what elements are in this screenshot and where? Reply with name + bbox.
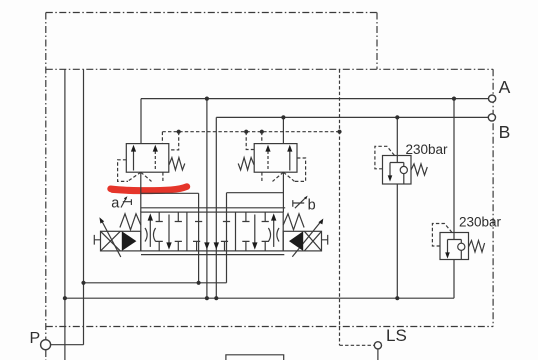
compensator R solid arrow head xyxy=(287,145,292,152)
relief valve 2 arrow head xyxy=(445,252,450,258)
solenoid b connector xyxy=(322,235,328,245)
main valve envelope top line xyxy=(141,207,285,209)
node B line / compensator R xyxy=(281,115,285,119)
solenoid b cross xyxy=(304,231,321,251)
solenoid a body xyxy=(101,231,141,251)
svg-text:B: B xyxy=(499,122,511,142)
node A line / relief valve 2 xyxy=(452,97,456,101)
enclosure boundary dash-dot right xyxy=(492,69,494,326)
compensator R spring xyxy=(238,158,254,170)
node T rail / T return xyxy=(63,296,67,300)
wire B drop through valve xyxy=(215,117,217,298)
relief valve 2 check ball xyxy=(458,243,465,250)
port P xyxy=(41,340,51,350)
compensator L drain fan xyxy=(128,172,163,181)
wire relief valve 1 outlet xyxy=(396,184,398,298)
wire relief valve 2 inlet xyxy=(453,99,455,233)
enclosure boundary dash-dot middle horizontal xyxy=(46,68,493,70)
node B line / relief valve 1 xyxy=(395,115,399,119)
wire compensator L top to A line xyxy=(140,99,142,144)
relief valve 1 arrow head xyxy=(388,175,393,181)
relief valve 2 body xyxy=(440,233,469,260)
wire compensator L bottom into valve xyxy=(141,172,199,283)
wire compensator R top to B line xyxy=(282,117,284,143)
arrowheads xyxy=(99,145,449,259)
valve spool up arrow right shaft xyxy=(273,217,275,247)
relief valve 2 internals xyxy=(448,233,462,260)
wire T return vertical from boundary to bottom edge xyxy=(64,69,66,360)
node P rail / valve feed xyxy=(197,281,201,285)
pilot b stroke limiter symbol xyxy=(293,198,306,209)
main valve section divider right xyxy=(235,212,237,251)
bottom cut-off box xyxy=(226,355,284,360)
relief valve 2 pilot dashed xyxy=(432,224,452,247)
enclosure boundary dash-dot bottom xyxy=(46,326,493,328)
svg-text:LS: LS xyxy=(386,326,407,345)
pilot line to compensator R top xyxy=(261,132,263,144)
relief valve 1 check ball xyxy=(400,166,407,173)
solenoid a triangle xyxy=(122,231,137,251)
node pilot / compensator L spring xyxy=(177,130,181,134)
compensator R solid flow arrow xyxy=(289,150,291,171)
enclosure boundary dash-dot notch vertical xyxy=(376,13,378,70)
node T rail / A drop xyxy=(205,296,209,300)
valve closed port stubs top xyxy=(156,212,269,221)
node T rail / relief valve 1 xyxy=(395,296,399,300)
node pilot / compensator R top xyxy=(260,130,264,134)
valve down arrow heads xyxy=(166,242,171,249)
pilot line to compensator L top xyxy=(161,132,163,144)
node P rail / P supply xyxy=(81,281,85,285)
relief valve 1 pilot dashed xyxy=(375,146,395,169)
compensator L dashed flow arrow xyxy=(154,151,156,171)
valve spool down arrow shafts xyxy=(169,215,255,246)
main valve section divider left xyxy=(186,212,188,251)
valve spool orifice left xyxy=(145,228,156,242)
node pilot / compensator R spring xyxy=(244,130,248,134)
compensator L solid arrow head xyxy=(131,145,136,152)
enclosure boundary dash-dot top xyxy=(46,12,377,14)
wire LS port stub down xyxy=(377,349,379,360)
compensator L dashed arrow head xyxy=(153,145,158,152)
pilot a stroke limiter symbol xyxy=(121,198,132,208)
node A line / valve drop xyxy=(205,97,209,101)
valve spool orifice right xyxy=(268,228,279,242)
wire P supply vertical from boundary to port P xyxy=(83,69,85,344)
compensator L spring xyxy=(169,158,185,170)
compensator L pilot left xyxy=(118,160,128,182)
wire relief valve 2 outlet xyxy=(453,260,455,299)
port A xyxy=(489,95,496,102)
port circles xyxy=(41,95,496,350)
svg-text:A: A xyxy=(499,77,511,97)
svg-text:P: P xyxy=(30,330,41,347)
compensator R drain fan xyxy=(262,172,295,181)
main valve body xyxy=(141,212,283,251)
node T rail / B drop xyxy=(214,296,218,300)
wire T rail xyxy=(65,297,454,299)
compensator R dashed arrow head xyxy=(265,145,270,152)
relief valve 1 spring xyxy=(411,164,427,175)
valve centering spring left xyxy=(120,214,141,230)
pilot line to compensator L spring side xyxy=(169,132,179,150)
wire P rail xyxy=(84,282,227,284)
port B xyxy=(488,114,495,121)
main valve envelope bottom line xyxy=(141,254,284,256)
red marker annotation xyxy=(111,187,187,191)
node pilot / LS line xyxy=(337,130,341,134)
pilot b symbol tick xyxy=(304,196,308,200)
pressure compensator valve right body xyxy=(254,144,297,173)
pilot line network dashed horizontal xyxy=(162,131,339,133)
compensator R dashed flow arrow xyxy=(267,151,269,171)
solenoid b body xyxy=(283,231,321,251)
valve up arrow heads xyxy=(148,213,153,220)
wire relief valve 1 inlet xyxy=(396,117,398,155)
solenoid a proportional arrow xyxy=(101,220,121,258)
enclosure boundary dash-dot left xyxy=(45,13,47,360)
valve closed port stubs bottom xyxy=(156,241,269,251)
solenoid a arrow head xyxy=(99,217,104,223)
relief valve 2 spring xyxy=(469,241,485,253)
svg-text:a: a xyxy=(111,196,120,212)
solenoid b triangle xyxy=(289,231,303,251)
wire port P to P supply xyxy=(51,344,84,346)
compensator R pilot right xyxy=(295,158,306,181)
solenoid b proportional arrow xyxy=(292,221,321,257)
wire compensator R bottom into valve xyxy=(227,172,284,283)
svg-text:b: b xyxy=(308,197,316,213)
svg-text:230bar: 230bar xyxy=(459,215,502,230)
solenoid a cross xyxy=(101,231,121,251)
relief valve 1 body xyxy=(383,156,412,185)
valve centering spring right xyxy=(283,214,304,230)
LS pilot line vertical and to LS port xyxy=(340,69,375,345)
solenoid a connector xyxy=(94,235,100,245)
wire B line xyxy=(216,116,488,118)
pilot a symbol tick xyxy=(124,196,128,200)
pilot line to compensator R spring side xyxy=(246,132,254,150)
relief valve 1 internals xyxy=(390,156,404,185)
pressure compensator valve left body xyxy=(126,144,169,173)
compensator L solid flow arrow xyxy=(133,150,135,171)
valve spool up arrow left shaft xyxy=(149,217,151,247)
solenoid b arrow head xyxy=(318,219,323,225)
svg-text:230bar: 230bar xyxy=(406,142,449,157)
wire A line xyxy=(141,98,488,100)
wire A drop through valve xyxy=(206,99,208,299)
port LS xyxy=(374,342,381,349)
